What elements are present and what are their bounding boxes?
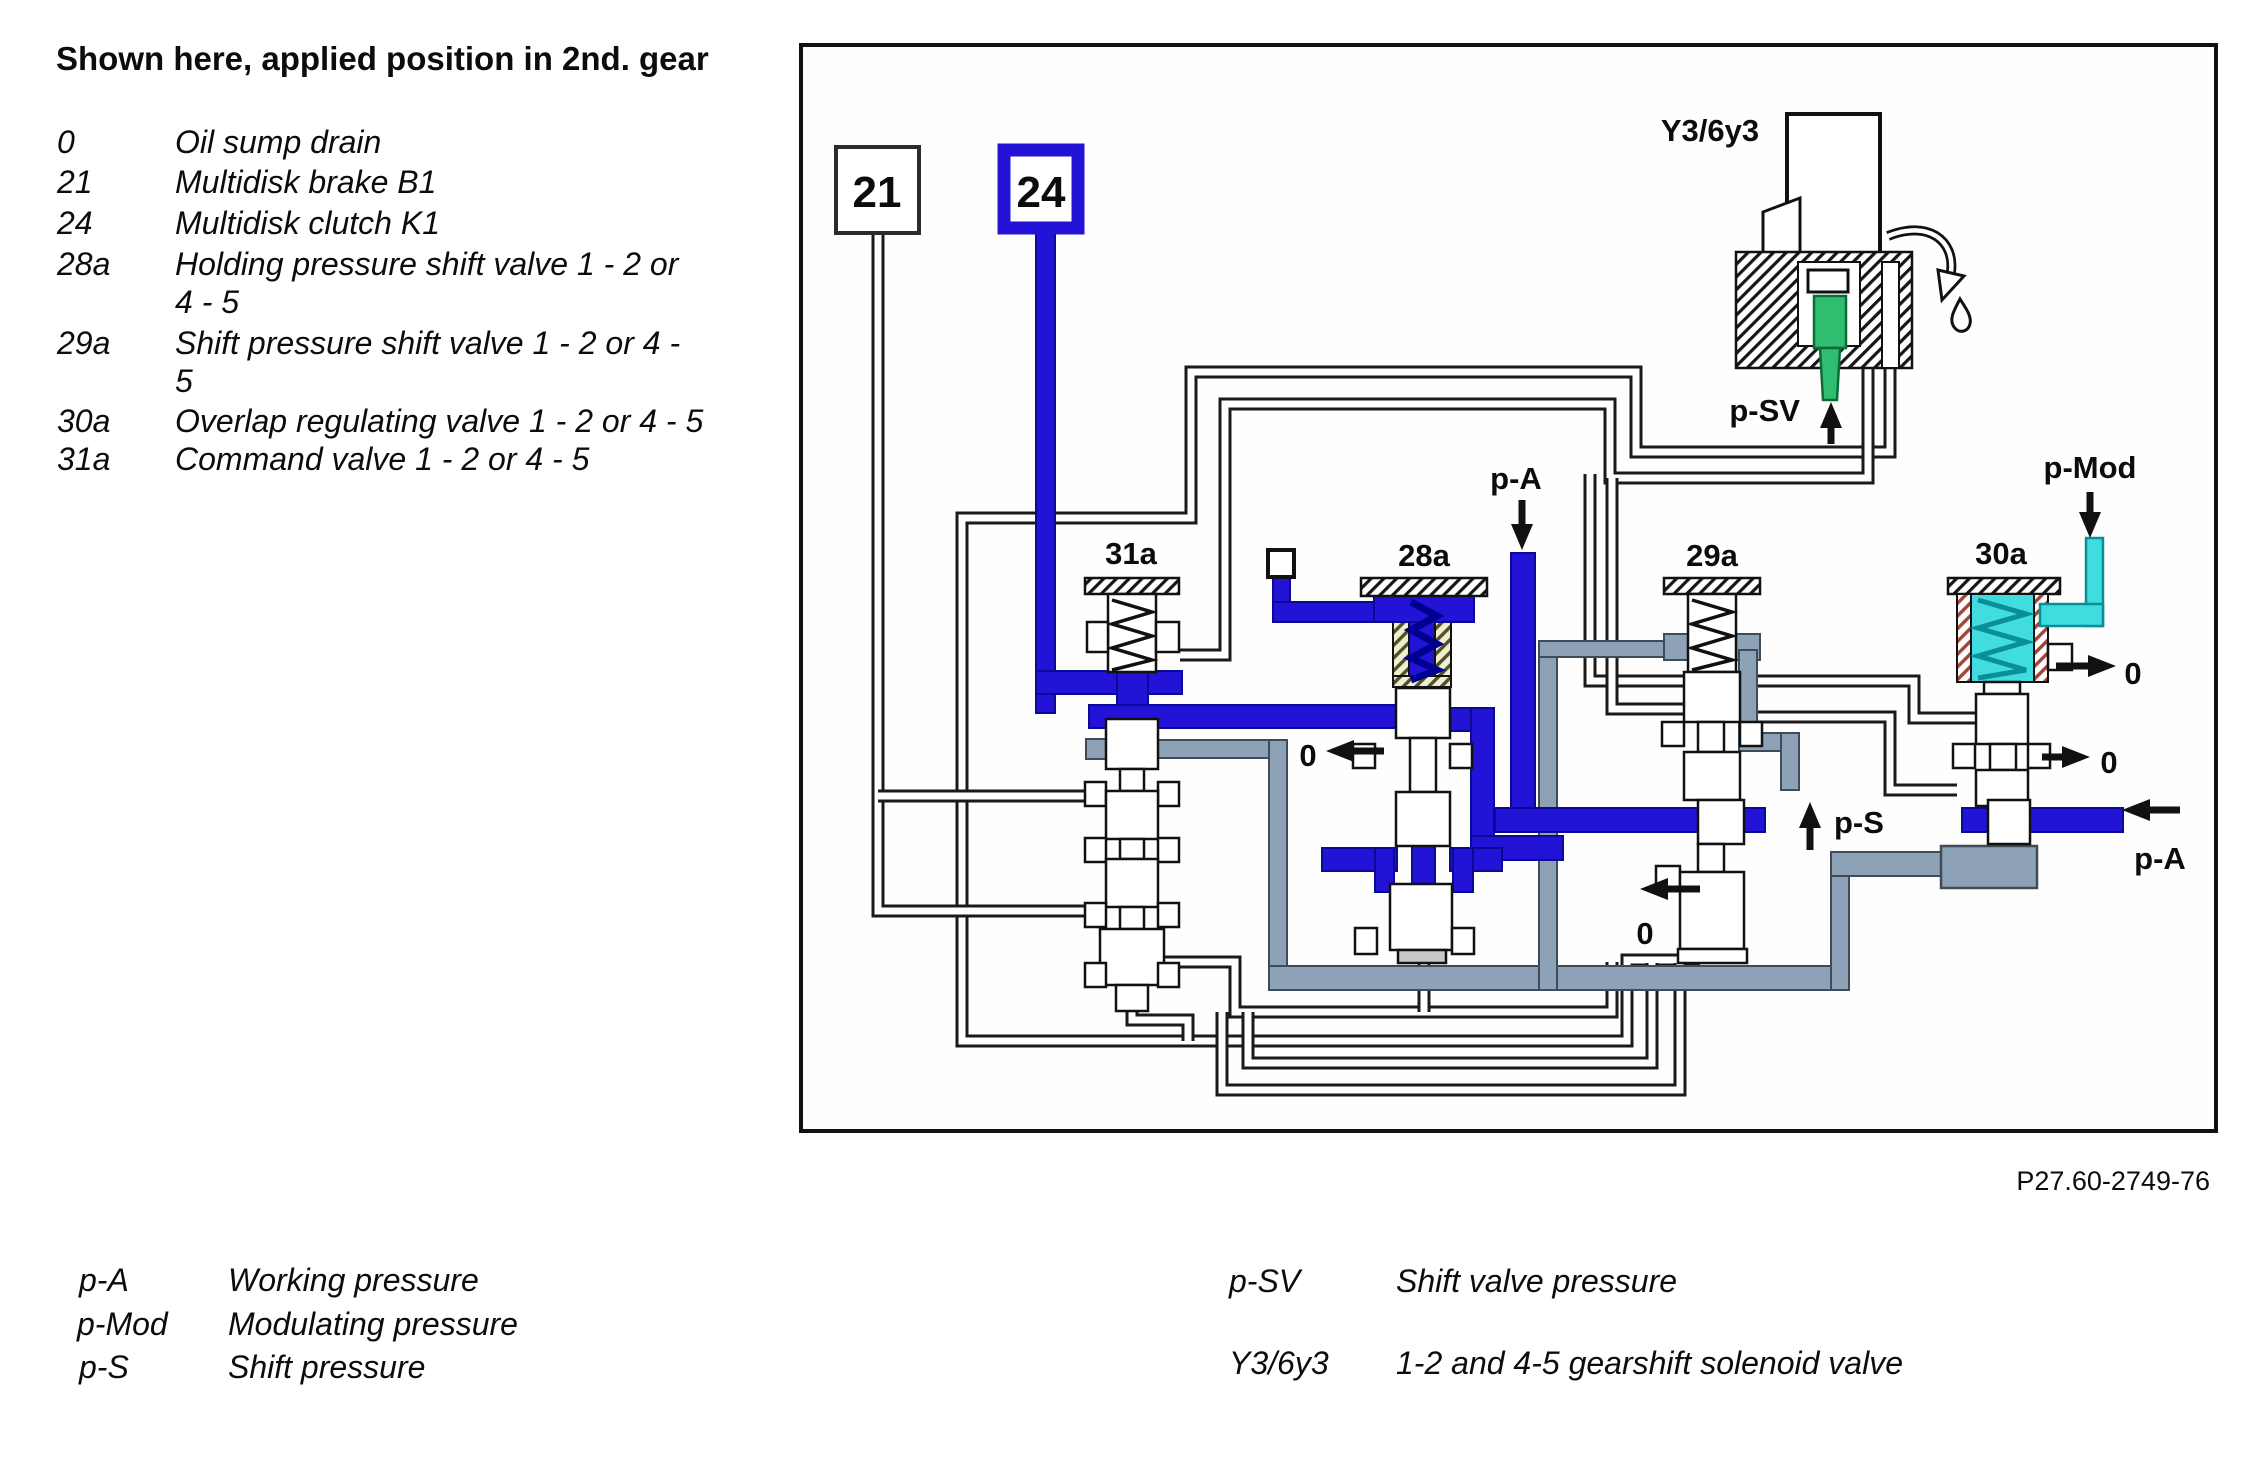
node p-A inlet arrow (top): [1511, 500, 1533, 550]
svg-text:Working pressure: Working pressure: [228, 1262, 479, 1298]
node breather square above 28a branch: [1268, 550, 1294, 577]
wire blue 28a lower cross: [1322, 840, 1502, 892]
node p-A inlet arrow (right): [2122, 799, 2180, 821]
valve 31a command valve: [1085, 578, 1179, 1011]
wire bottom sump loop inner: [1248, 963, 1652, 1063]
svg-text:29a: 29a: [1686, 538, 1738, 573]
box 24 multidisk clutch K1: [1004, 150, 1078, 228]
svg-text:0: 0: [57, 124, 75, 160]
svg-text:Multidisk brake B1: Multidisk brake B1: [175, 164, 436, 200]
svg-text:Holding pressure shift valve 1: Holding pressure shift valve 1 - 2 or: [175, 246, 680, 282]
svg-text:p-Mod: p-Mod: [2044, 450, 2137, 485]
valve 30a overlap regulating valve: [1948, 578, 2072, 844]
node p-SV arrow at solenoid: [1820, 402, 1842, 444]
wire 31a lower port to 29a bottom: [1160, 962, 1612, 1012]
wire blue p-A rail to 29a and 30a: [1495, 808, 2123, 832]
svg-text:1-2 and 4-5 gearshift solenoid: 1-2 and 4-5 gearshift solenoid valve: [1396, 1345, 1903, 1381]
node 0 drain arrow at 29a: [1640, 878, 1700, 900]
svg-text:0: 0: [1299, 738, 1316, 773]
frame of hydraulic diagram: [801, 45, 2216, 1131]
wire p-SV loop outer (valves to solenoid): [962, 365, 1890, 1041]
wire blue p-A supply vertical: [1511, 553, 1535, 823]
svg-text:Modulating pressure: Modulating pressure: [228, 1306, 518, 1342]
wire cyan p-Mod pipe: [2040, 538, 2103, 626]
svg-text:0: 0: [2100, 745, 2117, 780]
solenoid oil droplet: [1952, 299, 1971, 331]
node p-Mod inlet arrow: [2079, 492, 2101, 538]
box 21 multidisk brake B1: [836, 147, 919, 233]
svg-text:p-A: p-A: [1490, 461, 1542, 496]
node 0 drain arrow at 28a: [1326, 740, 1384, 762]
wire branch from 21 line to 31a upper port: [878, 790, 1085, 803]
wire feeder to 29a left port 1: [1590, 474, 1684, 681]
svg-text:p-SV: p-SV: [1228, 1263, 1303, 1299]
svg-text:4 - 5: 4 - 5: [175, 284, 239, 320]
solenoid Y3/6y3 hatched housing: [1736, 252, 1912, 368]
node 0 drain arrow at 30a top: [2056, 655, 2116, 677]
svg-text:29a: 29a: [56, 325, 110, 361]
svg-text:Shift pressure: Shift pressure: [228, 1349, 425, 1385]
svg-text:31a: 31a: [1105, 536, 1157, 571]
svg-text:p-A: p-A: [2134, 841, 2186, 876]
wire 31a bottom drain loop: [1132, 990, 1188, 1041]
svg-text:Shift valve pressure: Shift valve pressure: [1396, 1263, 1677, 1299]
svg-text:0: 0: [1636, 916, 1653, 951]
wire 29a right port to 30a lower port: [1757, 717, 1957, 790]
svg-text:Command valve 1 - 2 or 4 - 5: Command valve 1 - 2 or 4 - 5: [175, 441, 590, 477]
svg-text:p-SV: p-SV: [1729, 393, 1800, 428]
svg-text:Overlap regulating valve 1 - 2: Overlap regulating valve 1 - 2 or 4 - 5: [175, 403, 703, 439]
svg-text:P27.60-2749-76: P27.60-2749-76: [2016, 1166, 2210, 1196]
wire blue 28a right arm and descender to p-A rail: [1450, 708, 1563, 860]
svg-text:21: 21: [853, 168, 902, 217]
node 0 drain arrow at 30a mid: [2042, 746, 2090, 768]
svg-text:0: 0: [2124, 656, 2141, 691]
svg-text:Y3/6y3: Y3/6y3: [1229, 1345, 1329, 1381]
wire solenoid right channel: [1884, 262, 1897, 368]
wire feeder to 29a left port 2: [1612, 478, 1684, 709]
svg-text:21: 21: [56, 164, 93, 200]
solenoid Y3/6y3 body: [1787, 114, 1880, 262]
svg-text:31a: 31a: [57, 441, 110, 477]
svg-text:28a: 28a: [56, 246, 110, 282]
svg-text:24: 24: [1017, 168, 1066, 217]
valve 29a shift pressure shift valve: [1656, 578, 1762, 963]
svg-text:Y3/6y3: Y3/6y3: [1661, 113, 1759, 148]
svg-text:p-Mod: p-Mod: [76, 1306, 169, 1342]
svg-text:5: 5: [175, 363, 193, 399]
wire gray 30a bottom chamber: [1941, 846, 2037, 888]
svg-text:Multidisk clutch K1: Multidisk clutch K1: [175, 205, 440, 241]
svg-text:30a: 30a: [1975, 536, 2027, 571]
svg-text:24: 24: [56, 205, 93, 241]
wire 29a right port to 30a upper port: [1757, 681, 1975, 718]
wire from box 21 to valve 31a port: [878, 230, 1085, 911]
wire gray drain from 31a across bottom: [1086, 739, 1941, 990]
node p-S arrow: [1799, 802, 1821, 850]
svg-text:Oil sump drain: Oil sump drain: [175, 124, 381, 160]
solenoid Y3/6y3 connector flag: [1763, 198, 1800, 255]
solenoid vent curved arrow: [1888, 230, 1951, 272]
solenoid green armature pin: [1814, 296, 1846, 348]
svg-text:30a: 30a: [57, 403, 110, 439]
svg-text:p-S: p-S: [1834, 805, 1884, 840]
wire 28a bottom stub: [1418, 960, 1431, 1012]
wire gray p-SV rail past 29a spring: [1539, 634, 1799, 990]
svg-text:28a: 28a: [1398, 538, 1450, 573]
svg-text:Shift pressure shift valve 1 -: Shift pressure shift valve 1 - 2 or 4 -: [175, 325, 680, 361]
valve 28a holding pressure shift valve: [1353, 578, 1487, 963]
wire blue line from clutch 24: [1036, 233, 1399, 729]
wire blue branch with breather to 28a spring chamber: [1273, 575, 1437, 684]
wire p-SV loop inner (31a spring drain to solenoid): [1180, 365, 1868, 655]
svg-text:p-A: p-A: [78, 1262, 129, 1298]
svg-text:p-S: p-S: [78, 1349, 129, 1385]
svg-text:Shown here, applied position i: Shown here, applied position in 2nd. gea…: [56, 40, 709, 77]
wire bottom sump loop outer: [1222, 963, 1680, 1090]
